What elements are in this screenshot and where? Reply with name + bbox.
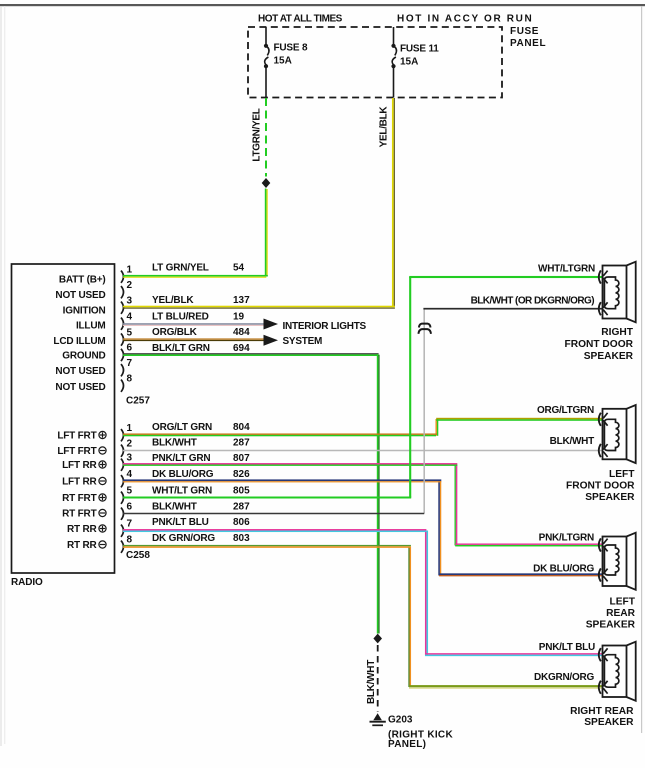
- svg-text:7: 7: [127, 358, 133, 369]
- svg-text:BLK/WHT (OR DKGRN/ORG): BLK/WHT (OR DKGRN/ORG): [471, 296, 595, 307]
- svg-text:SPEAKER: SPEAKER: [584, 717, 634, 728]
- svg-text:804: 804: [233, 422, 250, 433]
- right front door speaker terminal + (top): [599, 270, 601, 283]
- right front door speaker coil: [604, 277, 618, 309]
- splice diamond on ground wire: [373, 634, 382, 644]
- svg-text:826: 826: [233, 469, 250, 480]
- wire 287 BLK/WHT vertical run (to right front speaker): [423, 309, 425, 514]
- svg-text:NOT USED: NOT USED: [55, 366, 105, 377]
- svg-text:DK BLU/ORG: DK BLU/ORG: [152, 469, 214, 480]
- right rear speaker terminal - (bottom): [599, 681, 601, 694]
- wire LT GRN/YEL dashed vertical from fuse panel: [265, 98, 267, 177]
- svg-text:DKGRN/ORG: DKGRN/ORG: [534, 672, 594, 683]
- left front door speaker terminal - (bottom): [599, 444, 601, 457]
- svg-text:287: 287: [233, 438, 250, 449]
- fuse F11 (FUSE 11 15A): [393, 27, 395, 44]
- left rear speaker body: [603, 537, 627, 587]
- svg-text:NOT USED: NOT USED: [55, 382, 105, 393]
- splice diamond on LT GRN/YEL wire: [262, 178, 271, 188]
- svg-text:G203: G203: [388, 715, 413, 726]
- svg-text:WHT/LT GRN: WHT/LT GRN: [152, 486, 212, 497]
- svg-text:BLK/WHT: BLK/WHT: [366, 660, 377, 704]
- border frame top: [0, 4, 645, 6]
- right rear speaker terminal + (top): [599, 648, 601, 661]
- svg-text:BLK/WHT: BLK/WHT: [152, 438, 197, 449]
- svg-text:NOT USED: NOT USED: [55, 290, 105, 301]
- svg-text:ORG/BLK: ORG/BLK: [152, 327, 198, 338]
- svg-text:2: 2: [127, 439, 133, 450]
- wire 803 DK GRN/ORG to right rear speaker: [409, 685, 603, 687]
- C257 pin 4 connector arc: [121, 318, 124, 330]
- svg-text:2: 2: [127, 280, 133, 291]
- C257 pin 1 connector arc: [121, 271, 124, 283]
- wire 287 BLK/WHT to right front speaker: [423, 308, 602, 310]
- svg-text:805: 805: [233, 486, 250, 497]
- svg-text:806: 806: [233, 517, 250, 528]
- svg-text:RT FRT: RT FRT: [62, 509, 96, 520]
- svg-text:DK GRN/ORG: DK GRN/ORG: [152, 533, 215, 544]
- left rear speaker terminal - (bottom): [599, 568, 601, 581]
- svg-text:19: 19: [233, 312, 245, 323]
- svg-text:3: 3: [127, 453, 133, 464]
- wire 807 PNK/LT GRN vertical run: [455, 465, 456, 546]
- C258 pin 5 connector arc: [121, 492, 124, 504]
- svg-text:LEFT: LEFT: [609, 469, 635, 480]
- wire 806 PNK/LT BLU to right rear speaker: [425, 653, 603, 655]
- svg-text:C258: C258: [126, 550, 150, 561]
- wire 694 vertical run to ground: [377, 354, 379, 634]
- svg-text:FRONT DOOR: FRONT DOOR: [566, 481, 635, 492]
- svg-text:ORG/LTGRN: ORG/LTGRN: [537, 405, 594, 416]
- svg-text:PANEL): PANEL): [388, 739, 426, 750]
- wire 826 DK BLU/ORG to left rear speaker: [439, 573, 602, 575]
- svg-text:RT RR: RT RR: [67, 540, 98, 551]
- svg-text:PNK/LT GRN: PNK/LT GRN: [152, 453, 210, 464]
- svg-text:RIGHT REAR: RIGHT REAR: [570, 706, 634, 717]
- crossover hops on BLK/WHT vertical: [419, 324, 431, 328]
- svg-text:8: 8: [127, 535, 133, 546]
- wire 805 WHT/LT GRN to right front speaker: [409, 276, 602, 278]
- svg-text:LFT RR: LFT RR: [62, 460, 97, 471]
- border frame left: [1, 6, 2, 746]
- svg-text:137: 137: [233, 295, 250, 306]
- C257 pin 7 connector arc: [121, 364, 124, 376]
- svg-text:RT RR: RT RR: [67, 524, 98, 535]
- wire 804 ORG/LT GRN to left front speaker: [436, 418, 602, 420]
- svg-text:PANEL: PANEL: [510, 38, 546, 49]
- svg-text:BLK/WHT: BLK/WHT: [550, 436, 594, 447]
- svg-text:HOT IN ACCY OR RUN: HOT IN ACCY OR RUN: [397, 14, 533, 25]
- wire 804 ORG/LT GRN pin1 horizontal: [123, 433, 437, 435]
- svg-text:LEFT: LEFT: [610, 597, 636, 608]
- wire YEL/BLK vertical from fuse 11: [392, 98, 394, 307]
- right rear speaker coil: [604, 655, 618, 688]
- wire 19 LT BLU/RED pin4 to interior lights arrow: [123, 323, 264, 325]
- wire 804 ORG/LT GRN vertical step: [435, 419, 437, 436]
- right front door speaker terminal - (bottom): [599, 302, 601, 315]
- svg-text:5: 5: [127, 486, 133, 497]
- border frame right: [641, 6, 642, 733]
- wire 805 WHT/LT GRN pin5 horizontal: [123, 497, 411, 499]
- svg-text:484: 484: [233, 327, 250, 338]
- svg-text:RADIO: RADIO: [11, 577, 43, 588]
- svg-text:LFT RR: LFT RR: [62, 477, 97, 488]
- svg-text:7: 7: [127, 519, 133, 530]
- C258 pin 4 connector arc: [121, 475, 124, 487]
- svg-text:REAR: REAR: [606, 608, 636, 619]
- left rear speaker terminal + (top): [599, 538, 601, 551]
- arrow to interior lights (pin 4): [264, 319, 279, 330]
- svg-text:YEL/BLK: YEL/BLK: [379, 106, 390, 148]
- svg-text:LT BLU/RED: LT BLU/RED: [152, 312, 209, 323]
- svg-text:SPEAKER: SPEAKER: [584, 351, 634, 362]
- svg-text:BLK/LT GRN: BLK/LT GRN: [152, 343, 210, 354]
- wire 826 DK BLU/ORG vertical run: [438, 481, 440, 576]
- svg-text:287: 287: [233, 502, 250, 513]
- svg-text:FUSE 8: FUSE 8: [274, 43, 308, 54]
- C257 pin 2 connector arc: [121, 286, 124, 298]
- C258 pin 6 connector arc: [121, 508, 124, 520]
- svg-text:C257: C257: [126, 396, 150, 407]
- svg-text:807: 807: [233, 453, 250, 464]
- wire 805 WHT/LT GRN vertical run: [409, 277, 411, 498]
- svg-text:INTERIOR LIGHTS: INTERIOR LIGHTS: [283, 321, 367, 332]
- C257 pin 8 connector arc: [121, 380, 124, 392]
- wire 803 DK GRN/ORG pin8 horizontal: [123, 545, 411, 546]
- left front door speaker body: [603, 409, 627, 460]
- svg-text:SPEAKER: SPEAKER: [585, 492, 635, 503]
- C258 pin 1 connector arc: [121, 429, 124, 441]
- wire 807 PNK/LT GRN to left rear speaker: [455, 543, 602, 545]
- wire 806 PNK/LT BLU vertical run: [425, 531, 427, 656]
- ground symbol G203: [373, 713, 382, 720]
- radio box: [12, 264, 115, 573]
- svg-text:LCD ILLUM: LCD ILLUM: [53, 336, 105, 347]
- svg-text:15A: 15A: [274, 56, 292, 67]
- svg-text:1: 1: [127, 265, 133, 276]
- svg-text:ILLUM: ILLUM: [76, 320, 106, 331]
- svg-text:6: 6: [127, 343, 133, 354]
- svg-text:8: 8: [127, 374, 133, 385]
- C257 pin 5 connector arc: [121, 333, 124, 345]
- svg-text:3: 3: [127, 296, 133, 307]
- wire 807 PNK/LT GRN pin3 horizontal: [123, 463, 457, 465]
- svg-text:FUSE 11: FUSE 11: [400, 44, 439, 55]
- svg-text:RIGHT: RIGHT: [601, 327, 633, 338]
- left rear speaker coil: [604, 545, 618, 575]
- svg-text:4: 4: [127, 469, 133, 480]
- svg-text:PNK/LT BLU: PNK/LT BLU: [539, 642, 595, 653]
- svg-text:BATT (B+): BATT (B+): [59, 275, 106, 286]
- left front door speaker coil: [604, 419, 618, 450]
- wire 806 PNK/LT BLU pin7 horizontal: [123, 529, 426, 531]
- svg-text:SPEAKER: SPEAKER: [586, 620, 636, 631]
- svg-text:15A: 15A: [400, 57, 418, 68]
- wire LT GRN/YEL solid vertical to pin 1: [265, 189, 267, 277]
- svg-text:WHT/LTGRN: WHT/LTGRN: [538, 264, 595, 275]
- svg-text:ORG/LT GRN: ORG/LT GRN: [152, 422, 212, 433]
- svg-text:54: 54: [233, 263, 245, 274]
- svg-text:LFT FRT: LFT FRT: [57, 446, 96, 457]
- svg-text:FUSE: FUSE: [510, 26, 539, 37]
- wire 694 BLK/LT GRN pin6 horizontal: [123, 353, 379, 354]
- wire 287 BLK/WHT pin6 horizontal: [123, 513, 424, 515]
- svg-text:PNK/LT BLU: PNK/LT BLU: [152, 517, 209, 528]
- wire 484 ORG/BLK pin5 to interior lights arrow: [123, 338, 264, 340]
- svg-text:PNK/LTGRN: PNK/LTGRN: [539, 533, 594, 544]
- right front door speaker body: [603, 266, 627, 319]
- svg-text:4: 4: [127, 312, 133, 323]
- fuse F8 (FUSE 8 15A): [265, 27, 267, 44]
- svg-text:BLK/WHT: BLK/WHT: [152, 502, 197, 513]
- svg-text:YEL/BLK: YEL/BLK: [152, 295, 194, 306]
- svg-text:SYSTEM: SYSTEM: [283, 336, 323, 347]
- wire 137 YEL/BLK pin3 to fuse 11: [123, 306, 395, 308]
- svg-text:1: 1: [127, 423, 133, 434]
- C257 pin 6 connector arc: [121, 349, 124, 361]
- C257 pin 3 connector arc: [121, 302, 124, 314]
- svg-text:6: 6: [127, 502, 133, 513]
- C258 pin 3 connector arc: [121, 459, 124, 471]
- wire 826 DK BLU/ORG pin4 horizontal: [123, 479, 441, 481]
- svg-text:DK BLU/ORG: DK BLU/ORG: [533, 564, 594, 575]
- svg-text:GROUND: GROUND: [62, 351, 105, 362]
- fuse panel dashed box: [248, 27, 502, 98]
- left front door speaker terminal + (top): [599, 413, 601, 426]
- wire 803 DK GRN/ORG vertical run: [408, 547, 409, 688]
- svg-text:5: 5: [127, 327, 133, 338]
- svg-text:803: 803: [233, 533, 250, 544]
- wire BLK/WHT dashed to ground G203: [377, 645, 379, 712]
- svg-text:RT FRT: RT FRT: [62, 493, 96, 504]
- svg-text:LT GRN/YEL: LT GRN/YEL: [152, 263, 209, 274]
- svg-text:IGNITION: IGNITION: [63, 306, 106, 317]
- C258 pin 8 connector arc: [121, 541, 124, 553]
- svg-text:694: 694: [233, 343, 250, 354]
- svg-text:FRONT DOOR: FRONT DOOR: [565, 339, 634, 350]
- svg-text:LFT FRT: LFT FRT: [57, 431, 96, 442]
- right rear speaker body: [603, 646, 627, 698]
- svg-text:HOT AT ALL TIMES: HOT AT ALL TIMES: [258, 14, 343, 25]
- arrow to interior lights (pin 5): [264, 335, 279, 346]
- wire 287 BLK/WHT pin2 to left front speaker: [123, 450, 603, 452]
- C258 pin 2 connector arc: [121, 445, 124, 457]
- C258 pin 7 connector arc: [121, 525, 124, 537]
- svg-text:LTGRN/YEL: LTGRN/YEL: [252, 108, 263, 161]
- wire 54 LT GRN/YEL pin1 to fuse panel: [123, 275, 268, 277]
